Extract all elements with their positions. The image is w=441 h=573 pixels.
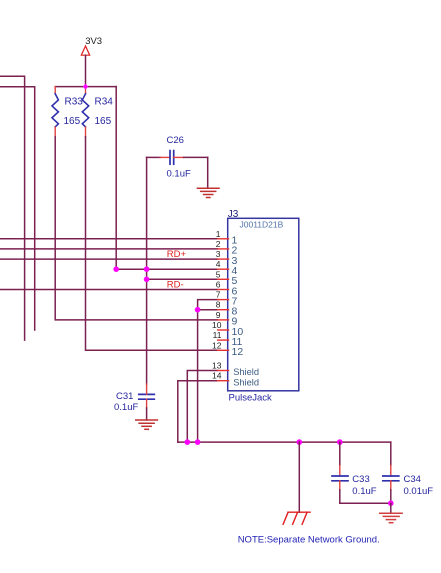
wire pin7 down to pin8 net: [198, 300, 218, 310]
ground symbol at C31: [136, 420, 158, 429]
resistor R33: [52, 87, 83, 137]
svg-text:C33: C33: [352, 474, 369, 485]
wire pin6 net RD-: [0, 289, 218, 291]
svg-text:4: 4: [216, 259, 221, 269]
svg-text:13: 13: [212, 361, 222, 371]
svg-text:C34: C34: [404, 474, 421, 485]
wire pin13: [187, 371, 217, 443]
svg-text:C26: C26: [167, 135, 184, 146]
capacitor C33: [332, 442, 377, 503]
svg-text:8: 8: [216, 300, 221, 310]
svg-text:R33: R33: [65, 97, 84, 108]
capacitor C34: [383, 442, 433, 503]
svg-text:Shield: Shield: [233, 367, 259, 377]
wire W2 left entry to pin10 column: [0, 87, 35, 330]
svg-text:J0011D21B: J0011D21B: [240, 220, 284, 230]
svg-text:RD-: RD-: [167, 280, 184, 291]
junction pin4/center-tap column: [144, 266, 150, 272]
svg-text:7: 7: [216, 290, 221, 300]
wire separate ground drop: [298, 442, 300, 512]
wire pin1: [0, 238, 218, 240]
junction C33 top: [337, 439, 343, 445]
J3 outside pin numbers: [212, 229, 222, 381]
separate network ground symbol: [283, 512, 310, 524]
junction pin13 column / bus: [185, 439, 191, 445]
wire 3V3 rail right branch to pin4: [116, 87, 218, 270]
svg-text:10: 10: [212, 320, 222, 330]
svg-text:12: 12: [212, 340, 222, 350]
resistor R34: [82, 87, 113, 137]
wire C34 to earth ground: [390, 503, 392, 513]
svg-text:3: 3: [216, 249, 221, 259]
earth ground symbol at C34: [380, 513, 402, 522]
svg-text:3V3: 3V3: [85, 36, 102, 47]
junction pin7-pin8: [195, 307, 201, 313]
junction C34 bottom: [388, 500, 394, 506]
ground bus wire: [178, 441, 391, 443]
svg-text:RD+: RD+: [167, 249, 187, 260]
svg-text:R34: R34: [95, 97, 114, 108]
ground symbol at C26: [197, 188, 219, 197]
wire pin5: [147, 278, 218, 280]
svg-text:2: 2: [216, 239, 221, 249]
junction pin8 column / bus: [195, 439, 201, 445]
svg-text:165: 165: [64, 116, 81, 127]
J3 pin stubs (red pins 1-14): [218, 239, 229, 381]
svg-text:14: 14: [212, 371, 222, 381]
wire C31 to ground: [146, 408, 148, 420]
junction pin4/3V3 column: [113, 266, 119, 272]
svg-text:PulseJack: PulseJack: [229, 393, 273, 404]
svg-text:NOTE:Separate Network Ground.: NOTE:Separate Network Ground.: [238, 534, 380, 545]
svg-text:0.1uF: 0.1uF: [352, 486, 376, 497]
wire C26 to ground: [207, 157, 209, 188]
wire C33 bottom jog to C34 column: [340, 502, 391, 504]
junction at 3V3 rail: [83, 84, 89, 90]
svg-text:5: 5: [216, 269, 221, 279]
J3 inside pin numbers: [232, 235, 260, 388]
power symbol 3V3: [81, 36, 102, 87]
connector J3: [228, 209, 299, 404]
wire 3V3 rail: [55, 86, 116, 88]
junction separate-ground drop: [297, 439, 303, 445]
wire R34 bottom to pin12: [86, 137, 218, 351]
wire C26/C31 column (center tap): [146, 157, 148, 384]
capacitor C26: [147, 135, 208, 179]
svg-text:11: 11: [213, 330, 222, 340]
svg-text:9: 9: [216, 310, 221, 320]
svg-text:C31: C31: [116, 391, 133, 402]
wire pin2: [0, 248, 218, 250]
svg-text:165: 165: [95, 116, 112, 127]
wire W1 left entry to pin11 column: [0, 76, 25, 340]
svg-text:0.1uF: 0.1uF: [114, 402, 138, 413]
junction pin5/center-tap column: [144, 277, 150, 283]
svg-text:Shield: Shield: [233, 377, 259, 387]
svg-text:12: 12: [232, 346, 244, 358]
capacitor C31: [114, 384, 154, 413]
svg-text:0.1uF: 0.1uF: [167, 169, 191, 180]
svg-text:0.01uF: 0.01uF: [404, 486, 434, 497]
wire pin14: [178, 381, 218, 442]
svg-text:1: 1: [216, 229, 221, 239]
wire pin8 column down to ground bus: [197, 310, 199, 442]
svg-text:6: 6: [216, 280, 221, 290]
wire pin3 net RD+: [0, 258, 218, 260]
wire R33 bottom to pin9: [55, 137, 218, 320]
wire pin8: [198, 309, 218, 311]
